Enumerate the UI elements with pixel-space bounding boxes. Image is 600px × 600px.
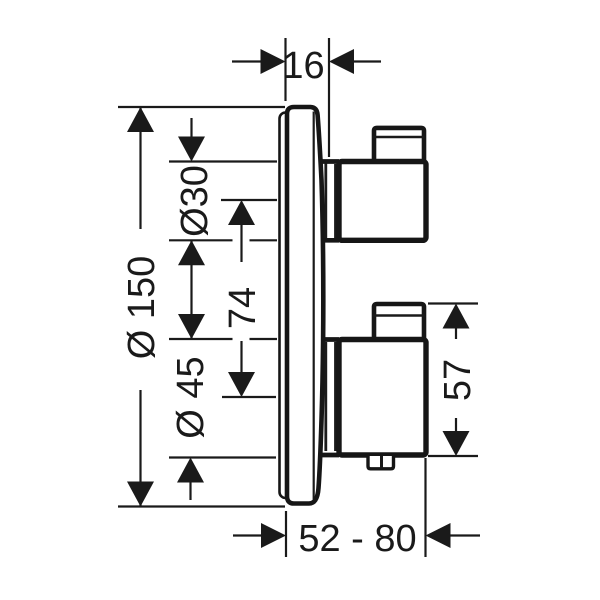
lower sleeve stub bottom [321, 453, 339, 458]
dim 74 top arrow and tail [228, 200, 255, 225]
dim 74 bottom extension [222, 396, 276, 398]
dim O45 bottom arrow and tail [177, 458, 204, 483]
upper handle body [339, 162, 426, 241]
dim O30 top tail and arrow [190, 118, 192, 140]
upper sleeve stub bottom [321, 238, 339, 243]
svg-text:74: 74 [222, 287, 264, 329]
lower handle cap [374, 304, 424, 339]
lower valve sleeve front edge [334, 342, 336, 451]
plate front-face edge line [313, 112, 315, 500]
dim 57 top extension [428, 302, 478, 304]
lower sleeve stub top [321, 337, 339, 342]
svg-text:Ø30: Ø30 [174, 165, 216, 237]
dim O150 arrow top [127, 107, 154, 132]
dim 16 extension line left [284, 38, 286, 101]
upper sleeve stub top [321, 159, 339, 164]
dim 16 tail right [351, 60, 381, 62]
dim O150 line lower [139, 390, 141, 507]
dim 57 top arrow and tail [443, 304, 470, 329]
dim O150 bottom extension [118, 505, 285, 507]
upper valve sleeve back edge [324, 163, 327, 238]
wall flange behind plate [280, 113, 294, 499]
dim 16 arrow right [329, 49, 354, 74]
dim 74 bottom tail and arrow [240, 341, 242, 375]
dim 16 extension line right [328, 38, 330, 157]
dim O30 top extension [169, 160, 277, 162]
svg-text:Ø 150: Ø 150 [121, 256, 163, 360]
dim 74 top extension [221, 199, 277, 201]
dim O30 bottom extension [169, 239, 233, 241]
lower handle body [339, 340, 426, 456]
dim O150 top extension [118, 106, 285, 108]
escutcheon plate outline [287, 107, 323, 504]
svg-text:Ø 45: Ø 45 [170, 356, 212, 438]
upper handle cap [374, 128, 424, 161]
svg-text:16: 16 [282, 45, 324, 87]
dim O150 line upper [139, 107, 141, 229]
dim 57 bottom extension [428, 455, 478, 457]
dim 16 tail left [232, 60, 264, 62]
svg-text:57: 57 [437, 359, 479, 401]
dim 57 bottom tail and arrow [455, 418, 457, 434]
dim O45 bottom extension [169, 456, 276, 458]
dim 52-80 left extension [285, 511, 287, 557]
svg-text:52 - 80: 52 - 80 [298, 518, 416, 560]
upper handle cap parting line [372, 136, 425, 138]
upper valve sleeve front edge [334, 164, 336, 238]
chained arrows between O30 and O45 [190, 240, 192, 339]
lower valve sleeve back edge [324, 342, 327, 451]
dim O45 top extension [169, 338, 233, 340]
lower handle cap parting line [372, 314, 425, 316]
dim O150 arrow bottom [127, 482, 154, 507]
dim 52-80 right extension [424, 458, 426, 557]
lower handle bottom tab [368, 456, 394, 469]
dim 16 arrow left [261, 49, 286, 74]
tab divider [380, 456, 383, 469]
dim 52-80 left tail and arrow [233, 534, 264, 536]
dim 52-80 right arrow and tail [426, 523, 451, 548]
